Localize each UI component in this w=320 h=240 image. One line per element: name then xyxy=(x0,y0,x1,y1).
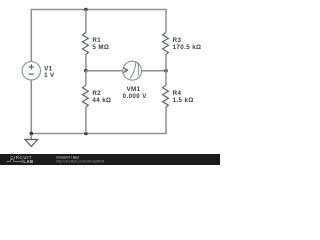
wire middle between R1 and node B xyxy=(85,54,87,70)
wire node B to voltmeter xyxy=(86,70,123,72)
svg-text:LAB: LAB xyxy=(23,159,33,164)
node C junction dot xyxy=(164,69,168,73)
svg-text:5 MΩ: 5 MΩ xyxy=(92,44,109,51)
wire voltmeter to node C xyxy=(142,70,166,72)
node A junction dot xyxy=(84,8,88,12)
wire below R2 xyxy=(85,107,87,133)
resistor R1 xyxy=(82,32,88,54)
voltage source V1 xyxy=(22,62,40,80)
resistor R3 xyxy=(163,32,169,54)
wire right between R3 and R4 through node C xyxy=(165,54,167,85)
svg-text:1 V: 1 V xyxy=(44,72,55,79)
svg-text:170.5 kΩ: 170.5 kΩ xyxy=(173,44,202,51)
ground GND xyxy=(30,135,32,140)
watermark logo trace and LAB xyxy=(7,159,34,164)
svg-text:0.000 V: 0.000 V xyxy=(123,93,148,100)
junction dot bottom-left xyxy=(30,132,34,136)
node B junction dot xyxy=(84,69,88,73)
voltmeter VM1 xyxy=(123,61,142,80)
wire bottom (ground net): left drop, bottom run, right drop xyxy=(31,80,166,134)
wire middle upper xyxy=(85,10,87,33)
svg-text:44 kΩ: 44 kΩ xyxy=(92,97,111,104)
wire middle lower to R2 xyxy=(85,71,87,86)
svg-text:1.5 kΩ: 1.5 kΩ xyxy=(173,97,194,104)
resistor R2 xyxy=(82,85,88,107)
watermark bar xyxy=(0,154,220,165)
junction dot bottom-middle xyxy=(84,132,88,136)
svg-text:R3: R3 xyxy=(173,37,182,44)
svg-text:R1: R1 xyxy=(92,37,101,44)
wire top (node A): left riser, top run, right riser xyxy=(31,10,166,62)
svg-text:http://circuitlab.com/c/wbuhp9: http://circuitlab.com/c/wbuhp9f934 xyxy=(56,160,104,164)
resistor R4 xyxy=(163,85,169,107)
svg-text:mmssm4 / lab2: mmssm4 / lab2 xyxy=(56,155,79,159)
